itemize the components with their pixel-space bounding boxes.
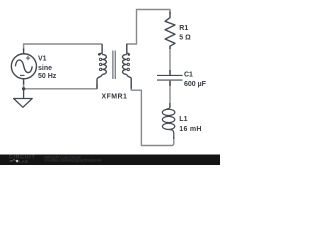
svg-text:16 mH: 16 mH — [179, 126, 201, 133]
wire V1 top to XFMR1 primary top — [24, 44, 103, 50]
wire V1 bottom / ground rail to XFMR1 primary bottom — [24, 82, 97, 89]
svg-text:V1: V1 — [38, 56, 47, 63]
wire XFMR1 secondary top to R1 — [127, 10, 170, 51]
inductor L1 — [162, 103, 175, 139]
svg-text:sine: sine — [38, 65, 52, 72]
XFMR1 phase dot secondary — [128, 53, 131, 56]
svg-text:50 Hz: 50 Hz — [38, 73, 57, 80]
svg-text:L1: L1 — [179, 116, 187, 123]
transformer XFMR1 — [97, 44, 131, 89]
svg-text:circuitlab.com/c4hq3ghuqr5nd/q: circuitlab.com/c4hq3ghuqr5nd/qtwm4 — [44, 158, 102, 162]
voltage source V1 — [11, 49, 36, 85]
core — [112, 51, 114, 80]
primary exit — [97, 74, 102, 88]
primary coil — [102, 54, 106, 74]
XFMR1 phase dot primary — [98, 53, 101, 56]
watermark bar — [0, 155, 220, 166]
V1 minus mark — [20, 74, 25, 76]
node junction dot at V1-/ground — [22, 87, 25, 90]
resistor R1 — [165, 12, 175, 50]
wire C1 bottom to L1 top — [169, 81, 171, 107]
svg-text:600 µF: 600 µF — [184, 81, 207, 88]
svg-text:XFMR1: XFMR1 — [102, 93, 128, 100]
wire R1 bottom to C1 top — [169, 47, 171, 76]
secondary coil — [123, 54, 127, 74]
ground — [14, 89, 33, 108]
svg-text:LAB: LAB — [19, 159, 28, 164]
secondary lead + entry hook — [127, 44, 129, 55]
svg-text:R1: R1 — [179, 25, 188, 32]
svg-text:C1: C1 — [184, 71, 193, 78]
primary lead + entry hook — [100, 44, 102, 55]
CircuitLab logo waveform + LAB — [10, 160, 16, 161]
secondary exit — [127, 74, 132, 88]
wire L1 bottom to XFMR1 secondary bottom — [131, 84, 174, 146]
capacitor C1 — [157, 70, 183, 86]
svg-text:5 Ω: 5 Ω — [179, 34, 191, 41]
V1 plus mark — [26, 56, 30, 60]
